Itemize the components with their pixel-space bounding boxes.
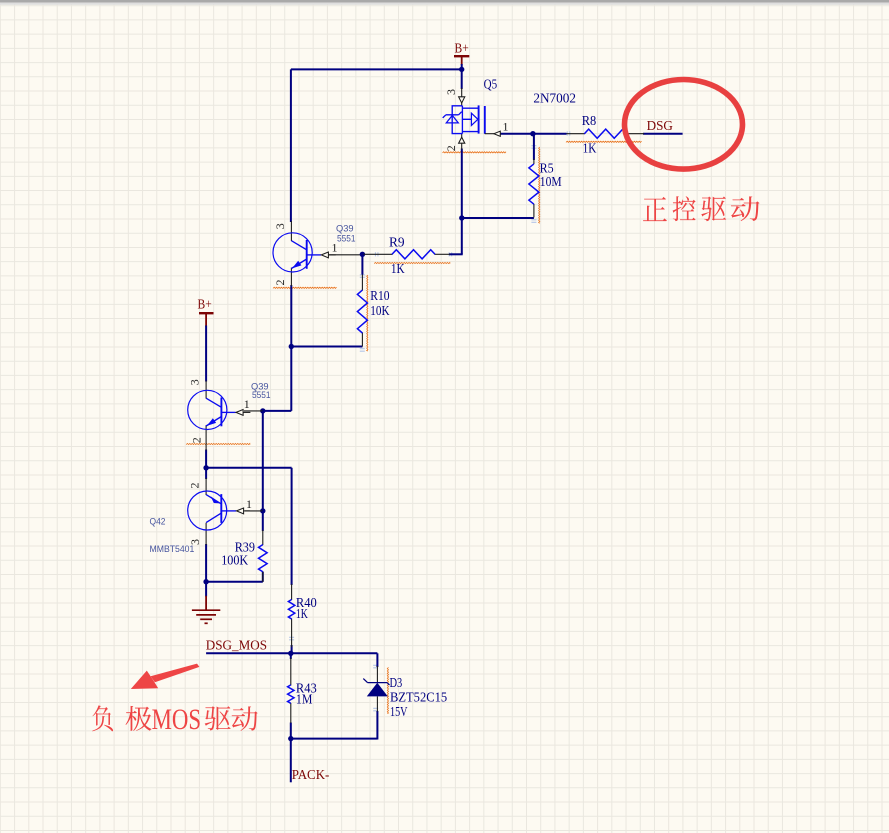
wire R40 column down [291,468,293,585]
wire R9 right lead to source node [449,253,463,255]
wire R39 bottom lead [262,572,264,582]
wire left drop to Q39 collector [290,69,292,222]
wire D3 anode horizontal [291,738,378,740]
wire B+ node horizontal run [291,68,462,70]
svg-text:DSG_MOS: DSG_MOS [206,638,267,653]
junction Q39(left) emitter / Q42 emitter / R40 run [203,465,208,470]
junction Q5 source / R5 / R9 [459,215,464,220]
red annotation arrow [131,664,200,689]
wire R39 bottom horizontal [206,581,263,583]
resistor R39 [262,530,264,545]
compile squiggle beside R10 [367,275,368,351]
wire B+ left to Q39(left) collector [205,326,207,382]
svg-text:MMBT5401: MMBT5401 [150,544,195,555]
svg-text:B+: B+ [198,296,212,311]
window top edge bars (decorative) [0,0,889,3]
wire Q39(left) emitter down [205,450,207,468]
wire Q39 base to R9/R10 junction (pin lead) [329,254,362,256]
svg-text:10M: 10M [540,175,562,190]
wire source node to R5 bottom [462,217,534,219]
svg-text:2N7002: 2N7002 [533,92,576,107]
svg-text:100K: 100K [221,553,248,568]
wire Q39 middle emitter down [290,285,292,347]
compile squiggle under Q39 (middle) pin 2 [273,287,337,288]
compile squiggle under Q39 (left) pin 2 [186,443,250,444]
svg-text:5551: 5551 [337,234,356,245]
svg-text:2: 2 [273,280,287,286]
svg-text:1: 1 [244,397,250,411]
svg-text:1M: 1M [296,693,313,708]
wire DSG_MOS stub left [206,652,291,654]
wire Q42 collector down [205,544,207,582]
svg-text:2: 2 [189,437,203,443]
junction at B+ / Q5 drain [459,67,464,72]
wire DSG_MOS to D3 branch [291,652,378,654]
svg-text:1K: 1K [391,262,405,277]
red annotation text 正控驱动 [643,196,760,221]
power port B+ (top) [454,41,469,66]
svg-text:2: 2 [187,483,201,489]
junction Q39(left) base / Q42 base column [260,408,265,413]
wire emitter node down to Q39(left) base level [290,347,292,411]
svg-text:DSG: DSG [647,119,673,134]
resistor R10 [361,274,363,291]
svg-text:15V: 15V [390,705,408,720]
svg-text:Q42: Q42 [150,517,166,528]
svg-text:1: 1 [503,119,509,133]
junction Q42 base / R39 top [260,508,265,513]
power port B+ (left) [198,296,214,326]
svg-text:R10: R10 [370,289,389,304]
compile squiggle beside D3 [387,667,388,713]
resistor R5 [533,159,535,164]
wire R5 top lead [533,134,535,160]
svg-text:R8: R8 [582,114,597,129]
junction Q39 base / R9 / R10 [360,252,365,257]
ground symbol [192,596,220,624]
red annotation text 负极MOS驱动 [92,703,257,736]
compile squiggle under R8 value 1K [566,141,642,142]
wire source node down to R9 [461,218,463,254]
transistor Q42 (MMBT5401 PNP) [205,478,207,495]
wire across to base junction (left Q39) [263,410,292,412]
wire R39 top lead [262,511,264,531]
svg-text:Q5: Q5 [484,78,498,93]
svg-text:B+: B+ [455,41,469,56]
resistor R8 [567,133,586,135]
compile squiggle under Q5 pin 2 [443,152,507,153]
zener diode D3 [363,666,389,712]
svg-text:2: 2 [444,145,458,151]
wire Q5 source down [461,149,463,219]
wire R43 top lead [290,653,292,659]
wire gate node: Q5 pin1 to junction [500,133,533,135]
svg-text:1K: 1K [296,607,308,622]
junction gate / R5 top [530,131,535,136]
svg-text:PACK-: PACK- [292,767,330,782]
compile squiggle under R9 value 1K [374,262,450,263]
svg-text:3: 3 [187,379,201,385]
wire D3 cathode drop [376,653,378,667]
junction Q42 collector / R39 bottom / ground [203,579,208,584]
junction R43 / D3 anode / PACK- [288,736,293,741]
svg-text:5551: 5551 [252,390,271,401]
wire PACK- stub [290,739,292,783]
wire to ground [205,582,207,597]
wire Q39(left) base lead (pin) [244,410,263,412]
compile squiggle beside R5 [539,147,540,223]
wire emitter node across to R40 column [206,467,292,469]
svg-text:3: 3 [273,223,287,229]
wire R40 bottom to DSG_MOS node [291,645,293,653]
wire R43 bottom to PACK- node [290,723,292,739]
wire emitter node down to Q42 emitter [205,468,207,479]
resistor R43 [290,658,292,686]
svg-text:BZT52C15: BZT52C15 [390,690,447,705]
junction emitter / R10 bottom [289,344,294,349]
wire B+ to Q5 drain [461,64,463,89]
transistor Q39 (middle, 5551 NPN) [290,221,292,241]
pin-end hotspot marks (pale) [375,252,378,256]
wire D3 anode riser [376,711,378,740]
svg-text:1K: 1K [583,141,597,156]
svg-text:R9: R9 [389,235,405,250]
svg-text:3: 3 [444,89,458,95]
resistor R40 [291,584,293,600]
transistor Q5 (2N7002 N-MOSFET) [443,88,501,150]
resistor R9 [364,253,393,255]
wire R10 bottom horizontal [291,346,362,348]
svg-text:1: 1 [246,497,252,511]
wire gate junction to R8 [533,133,567,135]
wire R8 right to DSG stub [643,133,683,135]
wire R5 bottom riser (pin lead) [533,204,535,217]
wire base column down to Q42 base [262,411,264,511]
junction DSG_MOS / R43 / D3 [288,651,293,656]
svg-text:D3: D3 [390,676,403,691]
svg-text:10K: 10K [370,304,389,319]
red ellipse annotation around DSG [625,80,743,170]
svg-text:MOS: MOS [152,703,202,736]
transistor Q39 (left, 5551 NPN) [205,381,207,399]
wire Q42 base lead (pin) [245,510,263,512]
